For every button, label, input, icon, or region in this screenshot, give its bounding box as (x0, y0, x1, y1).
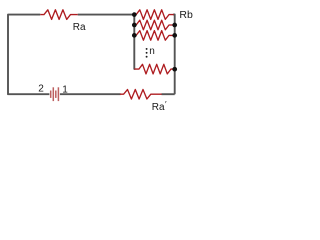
resistor Ra' (120, 90, 162, 100)
junction dot: left rail / R3 (132, 33, 137, 38)
battery cell bar 2 (tall) (52, 87, 54, 101)
resistor Rb bank #n (bottom row) (134, 64, 174, 74)
resistor Rb bank #2 (136, 20, 174, 30)
resistor Rb bank #3 (136, 31, 174, 41)
junction dot: left rail / R2 (132, 23, 137, 28)
resistor Ra (40, 10, 77, 20)
wire: bank left rail down to R4 corner (134, 14, 135, 69)
junction dot: right rail / R2 (172, 23, 177, 28)
battery cell bar 1 (short) (50, 91, 52, 98)
wire: bottom wire battery to Ra' (60, 93, 121, 95)
svg-text:1: 1 (62, 84, 68, 95)
battery cell bar 3 (short) (55, 91, 57, 98)
wire: bottom wire Ra' to bottom-right corner (162, 93, 175, 95)
junction dot: right rail / R3 (172, 33, 177, 38)
svg-text:Rb: Rb (179, 9, 193, 21)
label vertical-ellipsis dot 2 (146, 52, 148, 54)
svg-text:2: 2 (38, 84, 44, 95)
battery cell bar 4 (tall) (57, 87, 59, 101)
resistor Rb bank #1 (136, 10, 174, 20)
wire: top-left run, left rail, bottom run to battery (8, 15, 49, 95)
label vertical-ellipsis dot 1 (146, 48, 148, 50)
label vertical-ellipsis dot 3 (146, 56, 148, 58)
junction dot: right rail / R4 (172, 67, 177, 72)
svg-text:Ra: Ra (73, 22, 86, 33)
svg-text:n: n (149, 46, 155, 57)
svg-text:Ra′: Ra′ (152, 99, 167, 113)
wire: bank right rail, top corner to bottom-right corner (173, 15, 175, 95)
wire: top wire from Ra to bank junction (78, 14, 135, 16)
junction dot: top wire / bank left rail / R1 (132, 12, 137, 17)
